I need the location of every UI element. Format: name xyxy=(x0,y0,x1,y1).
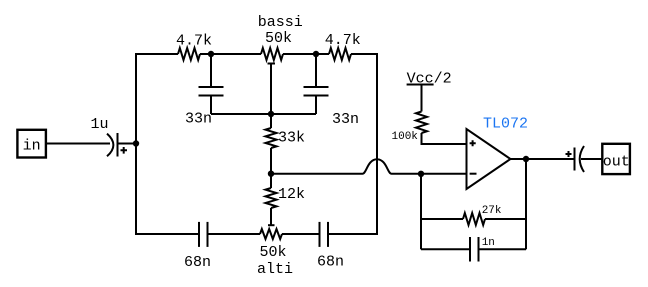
capacitor 33n (right) xyxy=(304,54,329,114)
wire: left vertical rail xyxy=(135,54,137,234)
capacitor C1 1u polarized input cap xyxy=(107,133,127,157)
label 1n xyxy=(482,237,495,249)
resistor 4.7k (right) xyxy=(329,48,351,60)
svg-text:33n: 33n xyxy=(185,111,212,128)
label 27k xyxy=(482,205,502,217)
label 1u xyxy=(91,116,109,133)
node: bassi wiper junction xyxy=(268,111,274,117)
potentiometer alti 50k body xyxy=(260,229,282,239)
node: 33k/12k junction xyxy=(268,171,274,177)
svg-text:1n: 1n xyxy=(482,237,495,249)
label 100k xyxy=(392,131,419,143)
label alti xyxy=(257,261,293,278)
resistor 100k xyxy=(416,112,427,134)
wire: Vcc/2 to 100k xyxy=(421,86,423,112)
wire: in box to C1 xyxy=(47,143,110,145)
svg-text:50k: 50k xyxy=(265,30,292,47)
potentiometer bassi 50k body xyxy=(261,48,283,60)
capacitor C2 output polarized xyxy=(566,146,585,172)
label 12k xyxy=(278,186,305,203)
wire: right vertical rail xyxy=(376,54,378,234)
wire: 33n bottom rail xyxy=(211,113,316,115)
in port xyxy=(17,130,46,158)
node: input junction xyxy=(133,140,139,146)
wire: mid node to 12k and down to alti wiper xyxy=(270,174,272,226)
svg-text:in: in xyxy=(23,138,41,155)
svg-text:out: out xyxy=(603,154,630,171)
label bassi xyxy=(258,14,303,31)
label 33n right xyxy=(332,111,359,128)
resistor 12k xyxy=(266,188,277,208)
capacitor 1n xyxy=(470,237,479,262)
power net Vcc/2 xyxy=(407,71,452,88)
svg-text:4.7k: 4.7k xyxy=(325,32,361,49)
wire: 68n to right rail xyxy=(328,233,378,235)
svg-text:100k: 100k xyxy=(392,131,419,143)
wire: op-amp output xyxy=(511,158,574,160)
capacitor 68n (left) xyxy=(199,222,208,247)
label TL072 xyxy=(483,116,528,133)
label 33n left xyxy=(185,111,212,128)
wire: alti pot to right 68n xyxy=(282,233,320,235)
node: inverting input junction xyxy=(418,171,424,177)
svg-text:4.7k: 4.7k xyxy=(176,32,212,49)
label 68n right xyxy=(317,254,344,271)
wire: bottom rail left xyxy=(135,233,199,235)
label in xyxy=(23,138,41,155)
wire: output cap to out box xyxy=(581,158,602,160)
label out xyxy=(603,154,630,171)
wire: inverting node down feedback left xyxy=(420,174,422,250)
wire: 100k to non-inverting input xyxy=(422,133,467,144)
label 50k bottom xyxy=(260,244,287,261)
wire: mid node to crossover xyxy=(271,173,363,175)
wire: bassi pot to 4.7k right xyxy=(283,53,329,55)
resistor 33k xyxy=(266,128,277,148)
wire: C1 to input node xyxy=(119,143,137,145)
capacitor 33n (left) xyxy=(199,54,224,114)
wire: crossover to inverting input xyxy=(392,173,467,175)
wire: top rail left segment xyxy=(135,53,178,55)
label 50k top xyxy=(265,30,292,47)
wire: feedback 27k row left xyxy=(421,218,463,220)
svg-text:1u: 1u xyxy=(91,116,109,133)
resistor 27k xyxy=(463,213,485,225)
svg-text:27k: 27k xyxy=(482,205,502,217)
svg-text:12k: 12k xyxy=(278,186,305,203)
label 33k xyxy=(278,130,305,147)
potentiometer bassi wiper xyxy=(268,64,276,115)
capacitor 68n (right) xyxy=(320,222,329,247)
label 68n left xyxy=(184,254,211,271)
potentiometer alti wiper xyxy=(268,224,275,226)
node A: top-left junction xyxy=(208,51,214,57)
wire: 27k to output rail xyxy=(485,218,526,220)
svg-text:50k: 50k xyxy=(260,244,287,261)
out port xyxy=(602,144,630,174)
wire: 1n to output rail xyxy=(479,248,527,250)
svg-text:bassi: bassi xyxy=(258,14,303,31)
svg-text:33n: 33n xyxy=(332,111,359,128)
resistor 4.7k (left) xyxy=(178,48,200,60)
wire: output rail down feedback right xyxy=(525,159,527,249)
op-amp U1 TL072 xyxy=(467,129,511,189)
svg-text:alti: alti xyxy=(257,261,293,278)
svg-text:68n: 68n xyxy=(317,254,344,271)
wire: 68n to alti pot xyxy=(208,233,261,235)
svg-text:33k: 33k xyxy=(278,130,305,147)
wire: wiper node to 33k xyxy=(270,114,272,128)
wire: top rail right corner xyxy=(351,53,378,55)
wire: crossover hump (no connection) xyxy=(363,159,392,173)
wire: 33k to mid node xyxy=(270,148,272,174)
node B: top-right junction xyxy=(313,51,319,57)
wire: feedback 1n row left xyxy=(421,248,470,250)
svg-text:TL072: TL072 xyxy=(483,116,528,133)
svg-text:68n: 68n xyxy=(184,254,211,271)
node: output junction xyxy=(523,156,529,162)
wire: 4.7k to bassi pot xyxy=(200,53,261,55)
label 4.7k right xyxy=(325,32,361,49)
label 4.7k left xyxy=(176,32,212,49)
